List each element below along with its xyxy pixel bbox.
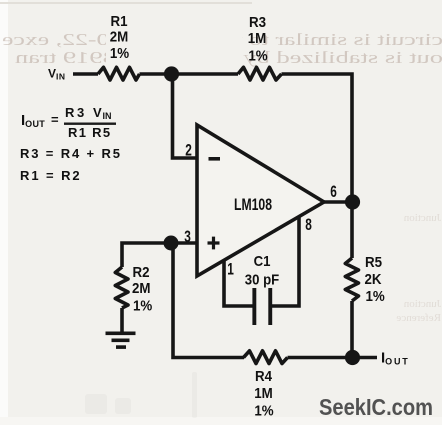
pin 1 label	[227, 261, 234, 279]
resistor R2	[115, 263, 153, 313]
wire op-amp output to node 6	[324, 200, 352, 204]
svg-text:R5: R5	[365, 253, 382, 270]
wire VIN to R1	[73, 72, 98, 76]
svg-text:2M: 2M	[110, 28, 129, 45]
pin 6 label	[330, 183, 337, 201]
formula R3 = R4 + R5	[20, 146, 122, 161]
formula IOUT = R3 VIN / R1 R5	[21, 105, 116, 140]
wire R2 to ground	[120, 308, 124, 333]
svg-text:1: 1	[227, 261, 234, 279]
svg-text:Junction: Junction	[403, 298, 441, 310]
svg-text:SeekIC.com: SeekIC.com	[319, 394, 433, 420]
svg-text:1M: 1M	[254, 384, 273, 401]
svg-text:1%: 1%	[254, 402, 274, 419]
formula R1 = R2	[20, 168, 82, 183]
svg-text:R4: R4	[255, 367, 272, 384]
resistor R1	[98, 12, 140, 80]
wire node 6 down to R5	[350, 202, 354, 258]
node C (output junction)	[345, 350, 360, 365]
ground	[106, 332, 136, 349]
svg-text:1%: 1%	[248, 47, 268, 64]
resistor R4	[244, 351, 288, 419]
node IOUT label	[381, 350, 410, 367]
svg-text:1%: 1%	[110, 44, 130, 61]
wire R4 to node C	[288, 356, 353, 360]
wire pin 8	[272, 216, 299, 306]
svg-text:=: =	[51, 112, 59, 127]
wire R5 to node C	[350, 301, 354, 358]
resistor R3	[238, 13, 282, 80]
pin 2 label and minus sign	[185, 142, 220, 161]
node VIN label	[48, 67, 66, 82]
op-amp U1 LM108	[197, 125, 324, 276]
svg-text:R2: R2	[133, 263, 150, 280]
svg-text:R3: R3	[249, 13, 266, 30]
pin 8 label	[305, 216, 312, 234]
wire pin 1	[224, 261, 253, 306]
wire R3 to node 6 (right corner down)	[282, 74, 353, 202]
pin 3 label and plus sign	[184, 228, 219, 249]
wire node A down to pin 2	[173, 74, 198, 158]
svg-text:IN: IN	[103, 111, 112, 121]
wire R1 to node A	[140, 72, 239, 76]
node 6 junction	[345, 194, 360, 209]
svg-text:8: 8	[305, 216, 312, 234]
svg-text:Junction: Junction	[403, 212, 441, 224]
svg-text:30 pF: 30 pF	[245, 271, 280, 288]
svg-text:2: 2	[185, 142, 192, 160]
svg-text:LM108: LM108	[234, 196, 272, 214]
svg-text:2K: 2K	[365, 270, 382, 287]
SeekIC.com logo	[319, 394, 433, 420]
svg-text:1%: 1%	[366, 287, 386, 304]
node B (pin3 junction)	[164, 236, 179, 251]
svg-text:1%: 1%	[133, 297, 153, 314]
resistor R5	[345, 253, 385, 304]
wire node B down to bottom rail	[173, 243, 244, 358]
wire pin 3	[170, 241, 197, 245]
svg-text:C1: C1	[254, 252, 271, 269]
svg-text:R3 V: R3 V	[65, 105, 104, 120]
capacitor C1	[245, 252, 280, 325]
svg-text:R3 = R4 + R5: R3 = R4 + R5	[20, 146, 122, 161]
wire node B to R2	[122, 243, 170, 267]
node A (junction R1/R3/pin2)	[164, 66, 179, 81]
svg-text:R1 R5: R1 R5	[68, 125, 111, 140]
svg-text:1M: 1M	[248, 29, 267, 46]
svg-text:6: 6	[330, 183, 337, 201]
svg-text:Reference: Reference	[396, 312, 441, 324]
wire node C to IOUT	[358, 356, 377, 360]
svg-text:2M: 2M	[132, 279, 151, 296]
svg-text:R1 = R2: R1 = R2	[20, 168, 82, 183]
svg-text:R1: R1	[110, 12, 127, 29]
